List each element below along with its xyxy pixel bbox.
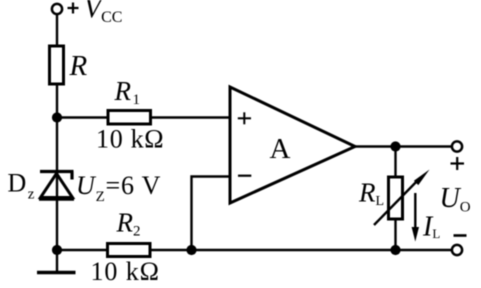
op-amp minus input mark [238,175,251,177]
wire [56,84,58,272]
op-amp A [230,87,355,203]
wire [57,116,230,118]
resistor R1 [108,111,151,125]
node (RL bottom / rail) [390,245,400,255]
svg-text:R: R [69,50,88,82]
node (zener anode / ground / R2) [52,245,62,255]
minus label (bottom output terminal) [454,234,467,237]
wire [355,145,452,147]
resistor R2 [108,244,151,257]
svg-text:A: A [270,133,291,165]
current arrow IL [412,193,419,242]
wire [57,249,452,251]
svg-text:10 kΩ: 10 kΩ [91,257,160,286]
wire [192,177,231,251]
svg-text:10 kΩ: 10 kΩ [96,125,164,154]
op-amp plus input mark [238,112,251,124]
wire [56,14,58,47]
node A (R / R1 / zener junction) [52,112,62,122]
zener diode Dz [39,172,74,200]
plus label (top output terminal) [451,157,465,170]
variable-resistor arrow on RL [374,170,430,226]
ground [37,271,76,275]
resistor RL (variable) [389,177,403,219]
svg-text:UZ=6 V: UZ=6 V [76,171,161,205]
plus sign of +Vcc [68,3,79,14]
resistor R [50,46,64,84]
node (R2 / feedback junction) [186,245,196,255]
terminal output - [452,245,462,255]
terminal +Vcc [52,4,62,14]
wire [394,147,396,251]
node (output / RL top) [390,141,400,151]
terminal output + [452,141,462,151]
